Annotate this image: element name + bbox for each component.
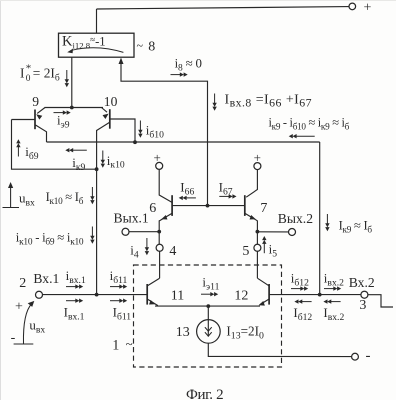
terminal circle node 4 [156, 244, 163, 251]
current arrow ie9 [54, 110, 71, 114]
transistor Q7 emitter lead [245, 213, 258, 231]
svg-text:12: 12 [234, 289, 248, 304]
transistor Q10 emitter lead [102, 108, 108, 113]
svg-text:10: 10 [104, 94, 118, 109]
svg-text:-: - [366, 348, 371, 364]
svg-text:8: 8 [148, 40, 155, 55]
terminal circle collector 6 [156, 162, 163, 169]
terminal circle collector 7 [254, 163, 261, 170]
wire node 4 down to collector 11 [159, 251, 161, 278]
current arrow on right branch (left) [289, 134, 315, 138]
svg-text:iк10 - iб9 ≈ iк10: iк10 - iб9 ≈ iк10 [16, 230, 84, 247]
current arrow ib11 upper (right) [110, 284, 127, 288]
svg-text:iб9: iб9 [25, 144, 39, 162]
current arrow Ib11 lower (right) [110, 299, 127, 303]
transistor Q7 base bar [244, 195, 246, 216]
transistor Q11 collector lead [148, 278, 160, 286]
svg-text:Вх.1: Вх.1 [33, 271, 59, 286]
svg-text:*: * [26, 63, 32, 75]
current arrow Ik9 (down) [325, 214, 329, 231]
svg-text:Iвх.1: Iвх.1 [64, 305, 85, 323]
transistor Q9 emitter lead [37, 108, 45, 114]
current arrow ie11 (right) [201, 292, 218, 296]
block U8 current amplifier box [59, 33, 135, 57]
transistor Q10 base bar [109, 109, 111, 129]
svg-text:I67: I67 [219, 179, 233, 197]
svg-text:5: 5 [242, 244, 249, 259]
node junction dot emitters to current source [206, 304, 210, 308]
svg-text:iб10: iб10 [146, 122, 164, 140]
wire right vertical branch down to Vx.2 node [319, 142, 321, 295]
terminal circle input 2 [361, 291, 368, 298]
wire input 1 to base of 11 [43, 294, 148, 296]
current arrow on block 8 output wire [65, 70, 69, 87]
current source double chevron arrows [205, 327, 212, 331]
transistor Q10 base lead wire [110, 119, 135, 142]
svg-text:Iк9 ≈ Iб: Iк9 ≈ Iб [339, 219, 373, 235]
node junction dot emitter 6 output node [157, 230, 161, 234]
node junction dot bases 6,7 [206, 204, 210, 208]
svg-text:11: 11 [171, 289, 184, 304]
svg-text:iвх.2: iвх.2 [324, 270, 344, 288]
svg-text:+: + [15, 299, 23, 314]
wire collector 9 long horizontal to right side [47, 141, 320, 143]
wire from top rail down to block 8 input [96, 9, 98, 33]
wire Vx.2 node to input 2 terminal [320, 294, 361, 296]
current source I13 circle [197, 320, 221, 344]
svg-text:= 2Iб: = 2Iб [33, 66, 60, 84]
terminal circle positive supply [349, 3, 356, 10]
current arrow I66 (left) [179, 196, 196, 200]
wire into current source [207, 306, 209, 336]
node junction dot base 10 on horizontal wire [133, 140, 137, 144]
current arrow Ivx.8 [212, 94, 216, 111]
current arrow ib10 (down) [138, 121, 142, 138]
current arrow ik9 (left) [65, 148, 87, 152]
wire base 7 to center node [208, 205, 245, 207]
curved arrow inside block 8 [72, 48, 124, 53]
transistor Q12 emitter arrowhead [258, 301, 265, 307]
transistor Q12 collector lead [257, 278, 268, 286]
wire base 6 to center node [172, 205, 207, 207]
svg-text:6: 6 [149, 201, 156, 216]
svg-text:0: 0 [26, 74, 31, 84]
svg-text:Вых.1: Вых.1 [114, 211, 149, 226]
current arrow Ivx.2 lower (left) [323, 299, 340, 303]
svg-text:4: 4 [169, 244, 176, 259]
current arrow ik10-ib9 (down) [90, 227, 94, 244]
svg-text:13: 13 [176, 325, 190, 340]
svg-text:uвх: uвх [19, 191, 35, 209]
transistor Q10 emitter arrowhead [103, 112, 111, 119]
terminal circle negative supply [352, 353, 359, 360]
transistor Q9 emitter arrowhead [35, 112, 43, 119]
svg-text:i8 ≈ 0: i8 ≈ 0 [175, 56, 202, 73]
svg-text:Вых.2: Вых.2 [278, 211, 313, 226]
current arrow ivx.2 upper (right) [324, 286, 341, 290]
terminal circle input 1 [36, 291, 43, 298]
terminal circle output 2 [289, 229, 296, 236]
transistor Q9 collector lead [36, 125, 47, 142]
current arrow I67 (right) [219, 194, 236, 198]
transistor Q6 emitter arrowhead [160, 215, 167, 221]
svg-text:7: 7 [260, 201, 267, 216]
current arrow i8 [171, 72, 188, 76]
svg-text:Iк10 ≈ Iб: Iк10 ≈ Iб [46, 190, 84, 206]
svg-text:iк10: iк10 [107, 153, 125, 171]
wire block 8 output down to emitters of 9 and 10 [71, 57, 73, 107]
svg-text:~: ~ [137, 39, 144, 53]
node junction dot ik9 loop [95, 167, 99, 171]
transistor Q12 base bar [268, 284, 270, 305]
svg-text:Iвх.8 =I66 +I67: Iвх.8 =I66 +I67 [225, 92, 313, 109]
wire common emitters 11,12 [155, 305, 260, 307]
transistor Q11 emitter lead [147, 299, 157, 306]
dashed box block 1 [134, 265, 282, 367]
svg-text:3: 3 [359, 298, 366, 313]
svg-text:iк9 - iб10 ≈ iк9 ≈ iб: iк9 - iб10 ≈ iк9 ≈ iб [269, 115, 350, 131]
wire emitter 6 down to node 4 [158, 232, 160, 245]
current arrow ik10 (down) [101, 151, 105, 168]
wire emitter link of 9 and 10 [45, 107, 104, 109]
wire block 8 input from node of bases 6,7 [121, 60, 208, 206]
svg-text:~: ~ [126, 336, 133, 351]
transistor Q6 base bar [171, 195, 173, 216]
current arrow ib9 (up) [16, 139, 20, 156]
terminal circle node 5 [254, 244, 261, 251]
transistor Q9 base bar [34, 110, 36, 130]
current arrow Ik10 (down) [90, 187, 94, 204]
transistor Q7 emitter arrowhead [250, 215, 257, 221]
wire base 12 to Vx.2 node [269, 294, 320, 296]
current arrow Ivx.1 lower (right) [66, 299, 83, 303]
wire to output 1 terminal [129, 231, 159, 233]
node junction dot on emitter link [70, 106, 74, 110]
svg-text:-: - [11, 330, 16, 345]
svg-text:I13=2I0: I13=2I0 [226, 323, 264, 341]
current arrow ib12 upper (right) [291, 286, 308, 290]
svg-text:I: I [20, 66, 24, 81]
svg-text:iб12: iб12 [291, 270, 309, 288]
terminal circle output 1 [122, 228, 129, 235]
current arrow Ib12 lower (left) [294, 299, 311, 303]
svg-text:I66: I66 [180, 179, 194, 197]
svg-text:iвх.1: iвх.1 [66, 268, 86, 286]
curved arrow input source uvx [23, 304, 31, 344]
node junction dot Vx.2 [318, 293, 322, 297]
svg-text:+: + [364, 0, 372, 15]
wire node 5 down to collector 12 [256, 251, 258, 278]
wire base 9 loop down-right to collector 10 node [12, 120, 97, 170]
node junction dot emitter 7 output node [256, 230, 260, 234]
wire to output 2 terminal [257, 231, 288, 233]
svg-text:i4: i4 [130, 243, 139, 261]
transistor Q7 collector lead [246, 170, 257, 198]
svg-text:i5: i5 [269, 241, 278, 259]
svg-text:9: 9 [32, 94, 39, 109]
svg-text:1: 1 [112, 338, 119, 354]
wire emitter 7 down to node 5 [256, 232, 258, 245]
svg-text:iб11: iб11 [110, 268, 128, 286]
transistor Q12 emitter lead [260, 299, 269, 305]
current arrow i4 (down) [145, 238, 149, 255]
svg-text:iэ9: iэ9 [57, 113, 70, 131]
transistor Q11 base bar [146, 284, 148, 305]
current arrow ivx.1 upper (right) [66, 284, 83, 288]
svg-text:Вх.2: Вх.2 [349, 275, 375, 290]
svg-text:Iб12: Iб12 [293, 305, 312, 323]
node junction dot input1/collector10 [95, 293, 99, 297]
arrowhead into block 8 [119, 58, 124, 64]
svg-text:uвх: uвх [29, 318, 45, 336]
transistor Q10 collector lead [97, 123, 110, 295]
wire current source to negative rail [208, 343, 351, 356]
transistor Q11 emitter arrowhead [149, 300, 156, 306]
wire hook after input 2 terminal [368, 295, 393, 307]
svg-text:Iвх.2: Iвх.2 [323, 305, 344, 323]
svg-text:Iб11: Iб11 [113, 305, 132, 323]
svg-text:2: 2 [19, 276, 26, 291]
transistor Q9 base lead wire [12, 119, 36, 121]
transistor Q6 collector lead [159, 169, 172, 202]
wire ground stub of input source [14, 343, 34, 345]
svg-text:iэ11: iэ11 [202, 274, 219, 292]
wire positive supply rail (top) [97, 7, 349, 9]
current arrow i5 (up) [262, 236, 266, 253]
annotation uvx input arrow (up) [8, 182, 13, 207]
svg-text:iк9: iк9 [72, 155, 85, 173]
svg-text:Фиг. 2: Фиг. 2 [186, 387, 223, 400]
transistor Q6 emitter lead [159, 213, 172, 231]
